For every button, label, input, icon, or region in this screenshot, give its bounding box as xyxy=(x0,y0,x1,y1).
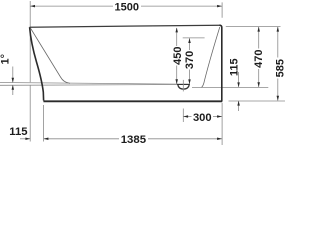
bathtub outline xyxy=(30,25,223,101)
svg-text:585: 585 xyxy=(274,59,285,77)
svg-text:450: 450 xyxy=(172,47,184,65)
dimension 115 right xyxy=(229,58,241,111)
wire: extension line left x=30 xyxy=(0,1,285,145)
svg-text:115: 115 xyxy=(9,126,27,138)
svg-text:370: 370 xyxy=(184,51,196,69)
wire: right outer edge xyxy=(220,25,222,101)
svg-text:470: 470 xyxy=(253,50,265,68)
svg-text:115: 115 xyxy=(229,58,241,76)
wire: extension line right bottom x=222 xyxy=(221,103,223,145)
wire: rim-top extension to the right xyxy=(226,25,281,27)
wire: drain centerline ext below xyxy=(182,109,184,123)
wire: extension line right top x=222 xyxy=(221,2,223,17)
wire: inner backrest line xyxy=(30,28,70,83)
wire: inner right wall xyxy=(202,27,220,87)
wire: bottom edge xyxy=(43,100,222,102)
dimension 370 xyxy=(184,38,196,84)
dimension 1500 xyxy=(30,2,222,14)
wire: 370 overflow-level line xyxy=(183,37,205,39)
svg-text:1385: 1385 xyxy=(121,134,147,146)
wire: shell-bottom extension line y=87.4 xyxy=(192,86,268,88)
wire: floor line right xyxy=(229,100,286,102)
dimension 300 xyxy=(183,112,222,124)
dimension 115 bottom-left xyxy=(9,126,30,140)
wire: drain centerline xyxy=(182,80,184,92)
wire: rim top edge xyxy=(30,25,221,27)
wire: 1-degree lower line xyxy=(0,84,178,87)
svg-text:300: 300 xyxy=(193,112,212,124)
wire: 1-degree upper line xyxy=(0,83,178,85)
dimension 470 xyxy=(253,27,265,87)
dimension 1385 xyxy=(44,134,222,146)
wire: extension line base-left x=43.6 xyxy=(43,105,45,142)
svg-text:1500: 1500 xyxy=(115,2,139,14)
dimension 585 xyxy=(274,27,286,101)
drain outlet xyxy=(177,80,190,92)
dimension 450 xyxy=(172,28,184,85)
svg-text:1°: 1° xyxy=(0,54,12,65)
dimension 1 degree xyxy=(0,54,14,95)
wire: left outer backrest curve xyxy=(30,27,44,100)
